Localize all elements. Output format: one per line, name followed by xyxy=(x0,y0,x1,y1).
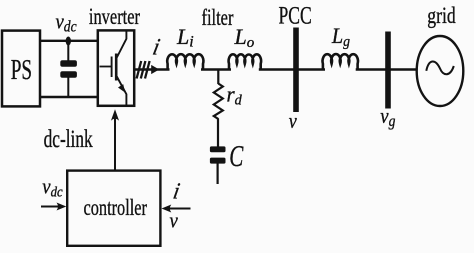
capacitor dc-link plate bottom xyxy=(60,71,77,78)
box controller xyxy=(67,171,160,246)
svg-text:vdc: vdc xyxy=(56,10,78,36)
inductor L_o xyxy=(229,54,261,69)
resistor r_d zigzag xyxy=(214,84,223,120)
svg-text:inverter: inverter xyxy=(89,4,140,29)
wire L_o to PCC xyxy=(259,68,325,70)
wire junction to r_d xyxy=(217,70,219,85)
svg-text:v: v xyxy=(170,209,179,233)
wire inverter output xyxy=(135,68,170,70)
inductor L_i xyxy=(167,54,203,69)
bus bar v_g xyxy=(385,32,391,109)
svg-text:dc-link: dc-link xyxy=(44,125,93,153)
PCC bus bar xyxy=(293,28,299,113)
svg-text:controller: controller xyxy=(84,195,148,220)
svg-text:Lg: Lg xyxy=(331,23,350,50)
IGBT emitter arrowhead xyxy=(118,84,125,93)
arrowhead into controller left xyxy=(57,203,67,211)
node v_dc junction dot xyxy=(66,37,71,46)
wire capacitor branch lower xyxy=(67,77,69,97)
box inverter xyxy=(98,30,134,105)
svg-text:PCC: PCC xyxy=(279,0,312,29)
grid source circle xyxy=(417,36,464,106)
capacitor C plate bottom xyxy=(210,158,226,164)
svg-text:grid: grid xyxy=(427,2,456,28)
svg-text:rd: rd xyxy=(227,82,243,109)
wire dc-link bottom xyxy=(39,96,99,98)
capacitor C plate top xyxy=(210,146,226,152)
three-phase slash marks xyxy=(137,61,150,79)
IGBT gate bar xyxy=(111,57,113,78)
svg-text:i: i xyxy=(171,178,182,204)
wire controller to inverter xyxy=(114,113,116,171)
wire dc-link top xyxy=(39,40,99,42)
sine wave xyxy=(426,61,454,74)
IGBT emitter xyxy=(117,77,127,106)
wire L_i to junction xyxy=(201,68,231,70)
svg-text:Lo: Lo xyxy=(234,24,255,51)
svg-text:v: v xyxy=(289,109,297,133)
IGBT collector xyxy=(117,31,127,57)
wire capacitor branch upper xyxy=(67,41,69,61)
IGBT gate lead xyxy=(100,66,112,68)
wire controller input left xyxy=(41,205,60,207)
inductor L_g xyxy=(323,54,358,69)
arrowhead into controller right xyxy=(162,205,172,213)
svg-text:PS: PS xyxy=(11,54,32,86)
current arrow on wire xyxy=(151,65,159,74)
svg-text:filter: filter xyxy=(202,5,234,30)
wire C stub xyxy=(217,163,219,184)
wire L_g to grid xyxy=(356,68,418,70)
IGBT body bar xyxy=(115,54,118,81)
capacitor dc-link plate top xyxy=(60,60,77,67)
svg-text:i: i xyxy=(151,34,163,60)
wire r_d to C xyxy=(217,119,219,147)
svg-text:vg: vg xyxy=(380,105,395,131)
svg-text:C: C xyxy=(229,138,243,173)
wire controller input right xyxy=(168,207,191,209)
svg-text:vdc: vdc xyxy=(42,175,63,201)
svg-text:Li: Li xyxy=(176,24,194,51)
arrowhead controller to inverter xyxy=(111,109,119,121)
box PS (power supply) xyxy=(2,31,40,107)
